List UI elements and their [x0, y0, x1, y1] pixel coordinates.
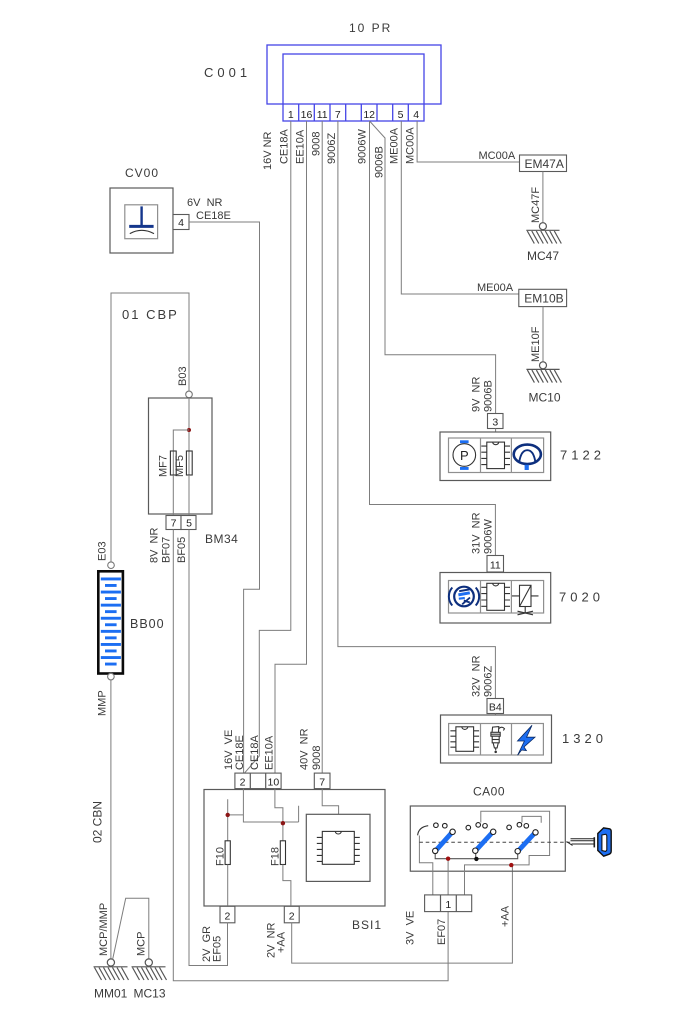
7020 IC icon: [487, 583, 505, 610]
wire E03 / B03 (battery to BM34): [111, 293, 189, 562]
svg-text:2: 2: [240, 777, 246, 789]
svg-text:31V NR: 31V NR: [471, 512, 483, 554]
CA00 dashed key line: [419, 841, 570, 843]
svg-text:EE10A: EE10A: [264, 735, 276, 770]
component BSI1 box: [204, 790, 385, 907]
BSI1 inner module box: [306, 814, 370, 881]
svg-text:02 CBN: 02 CBN: [91, 801, 105, 843]
svg-text:MMP: MMP: [97, 690, 109, 716]
svg-text:5: 5: [398, 109, 404, 121]
svg-text:EF05: EF05: [211, 936, 223, 962]
svg-text:16V NR: 16V NR: [262, 131, 274, 170]
wire 9008 (C001 pin 11 to BSI1 pin 7): [321, 121, 323, 773]
svg-text:MC00A: MC00A: [479, 150, 516, 162]
wire MMP to ground: [110, 680, 112, 959]
wire BF07 / EF07 (BM34 pin7 to CA00 pin1): [173, 530, 448, 981]
svg-text:8V NR: 8V NR: [148, 527, 160, 563]
splice EM10B box: [519, 289, 567, 306]
wire branch to MF7: [173, 430, 189, 451]
svg-text:9006W: 9006W: [483, 519, 495, 554]
CV00 pin 4 box: [173, 215, 189, 230]
wire 9006Z (C001 pin 7 to 1320 pin B4): [338, 121, 496, 699]
svg-text:BM34: BM34: [205, 532, 238, 546]
svg-text:B4: B4: [489, 702, 502, 714]
svg-text:EE10A: EE10A: [294, 129, 306, 164]
7122 pin 3 box: [488, 414, 504, 429]
CA00 switch 1 lever: [436, 833, 451, 850]
component 7020 box: [440, 573, 551, 624]
svg-text:40V NR: 40V NR: [299, 728, 311, 770]
svg-text:EM10B: EM10B: [524, 292, 563, 306]
svg-text:CE18E: CE18E: [196, 210, 231, 222]
svg-text:+AA: +AA: [500, 905, 512, 927]
svg-text:7122: 7122: [560, 448, 605, 463]
svg-text:2: 2: [224, 910, 230, 922]
svg-text:4: 4: [178, 217, 184, 229]
svg-text:+AA: +AA: [275, 931, 287, 953]
wire ground link MM01 to MC13: [113, 898, 149, 959]
svg-text:1: 1: [288, 109, 294, 121]
svg-text:MF5: MF5: [174, 455, 186, 477]
wire MC00A (C001 pin 4 to EM47A): [417, 121, 519, 162]
1320 injector icon: [491, 727, 505, 753]
CA00 contact circles: [434, 823, 439, 828]
CA00 switch 3 lever: [519, 834, 535, 851]
ground MC10: [540, 362, 547, 369]
wire EE10A (C001 pin 16 to BSI1 pin 10): [275, 121, 307, 773]
CV00 antenna icon box: [125, 205, 158, 239]
node E03 battery top: [108, 562, 115, 569]
svg-text:6V NR: 6V NR: [187, 197, 223, 209]
svg-text:1320: 1320: [562, 731, 607, 746]
CA00 internal gray loop: [465, 811, 550, 895]
wire ME10F: [542, 307, 544, 362]
wire CE18A (C001 pin 1 to BSI1 pin 2): [245, 121, 291, 773]
svg-text:B03: B03: [177, 366, 189, 386]
svg-text:7020: 7020: [559, 590, 604, 605]
svg-text:MF7: MF7: [158, 455, 170, 477]
ground MC13: [145, 959, 152, 966]
svg-text:BSI1: BSI1: [352, 918, 382, 932]
key icon: [567, 828, 612, 856]
svg-text:7: 7: [335, 109, 341, 121]
7122 gauge icon: [514, 445, 541, 470]
fuse F10: [225, 841, 230, 865]
svg-text:E03: E03: [97, 541, 109, 561]
1320 lightning icon: [518, 725, 536, 755]
BM34 pin 7 box: [166, 516, 181, 530]
svg-text:CV00: CV00: [125, 166, 159, 180]
svg-text:9006Z: 9006Z: [483, 666, 495, 697]
BSI1 internal wires from pin 2: [228, 789, 299, 841]
svg-text:MM01: MM01: [94, 987, 128, 1001]
CA00 bottom bus wire: [435, 851, 518, 859]
BM34 pin 5 box: [181, 516, 196, 530]
svg-text:MC10: MC10: [529, 391, 561, 405]
CA00 left hook contact: [418, 826, 429, 836]
svg-text:9008: 9008: [311, 132, 323, 156]
svg-text:3: 3: [492, 417, 498, 429]
svg-text:F18: F18: [270, 847, 282, 866]
svg-text:ME00A: ME00A: [477, 282, 514, 294]
svg-text:MC00A: MC00A: [404, 127, 416, 164]
CA00 switch 2 lever: [477, 833, 493, 850]
svg-text:CE18E: CE18E: [234, 735, 246, 770]
svg-text:MC47: MC47: [527, 249, 559, 263]
7020 pin 11 box: [487, 556, 504, 573]
BSI1 internal wire from pin 7: [322, 789, 338, 815]
svg-text:9006B: 9006B: [374, 146, 386, 178]
svg-text:1: 1: [445, 899, 451, 911]
svg-text:5: 5: [186, 518, 192, 530]
svg-text:CE18A: CE18A: [279, 128, 291, 164]
1320 IC icon: [456, 727, 474, 752]
svg-text:MC47F: MC47F: [530, 187, 542, 223]
svg-text:12: 12: [363, 109, 375, 121]
svg-text:BF05: BF05: [176, 537, 188, 563]
junction dots CA00: [446, 857, 450, 861]
svg-text:11: 11: [317, 109, 328, 121]
svg-text:01 CBP: 01 CBP: [122, 307, 179, 322]
7122 fuel pump icon: [453, 440, 476, 470]
CV00 antenna icon: [140, 206, 142, 226]
svg-text:MCP/MMP: MCP/MMP: [98, 903, 110, 956]
BSI1 top pin box 7: [314, 773, 330, 789]
ground MC47: [539, 223, 546, 230]
BSI1 top pin boxes 2 / 10: [235, 773, 281, 789]
junction dot F10: [226, 813, 230, 817]
svg-text:EM47A: EM47A: [525, 157, 564, 171]
wire MC47F: [542, 172, 544, 223]
svg-text:MC13: MC13: [134, 987, 166, 1001]
component BM34 box: [149, 398, 213, 514]
junction dot F18: [281, 821, 285, 825]
svg-text:CA00: CA00: [473, 785, 505, 799]
7020 ABS icon: [449, 587, 479, 607]
wire 9006W (C001 pin 12 to 7020 pin 11): [370, 121, 496, 556]
1320 pin B4 box: [487, 699, 504, 714]
svg-text:2: 2: [289, 910, 295, 922]
svg-text:P: P: [460, 448, 469, 463]
svg-text:ME00A: ME00A: [389, 127, 401, 164]
svg-text:7: 7: [171, 518, 177, 530]
svg-text:4: 4: [413, 109, 419, 121]
CA00 switch3 hook wire: [522, 816, 541, 822]
svg-text:F10: F10: [214, 847, 226, 866]
svg-text:3V VE: 3V VE: [405, 911, 417, 945]
wires MF7/MF5 to pins: [173, 475, 189, 516]
connector C001 pin row dividers: [299, 104, 409, 121]
fuse MF7: [170, 451, 176, 477]
svg-text:16: 16: [301, 109, 313, 121]
svg-text:11: 11: [490, 560, 501, 572]
svg-text:C001: C001: [204, 65, 251, 80]
BSI1 IC icon: [322, 831, 354, 864]
svg-text:9006Z: 9006Z: [326, 133, 338, 164]
node MMP battery bottom: [108, 673, 115, 680]
wire BF05 / EF05 (BM34 pin5 to BSI1 pin2): [189, 530, 228, 966]
connector C001 outer shell: [267, 45, 441, 104]
splice EM47A box: [520, 155, 567, 172]
7122 IC icon: [487, 442, 505, 469]
svg-text:ME10F: ME10F: [530, 326, 542, 362]
CA00 bottom pin box: [425, 895, 472, 912]
svg-text:9006W: 9006W: [357, 129, 369, 164]
svg-text:BF07: BF07: [161, 537, 173, 563]
component 1320 box: [441, 715, 552, 763]
BSI1 internal wires from pin 10: [275, 789, 283, 841]
component CV00 box: [110, 188, 173, 253]
svg-text:BB00: BB00: [130, 617, 165, 631]
wire +AA (BSI1 pin2 to CA00): [292, 865, 513, 963]
svg-text:32V NR: 32V NR: [471, 655, 483, 697]
svg-text:9008: 9008: [311, 746, 323, 770]
wire 9006B (C001 pin 12 to 7122 pin 3): [370, 122, 496, 414]
svg-text:MCP: MCP: [136, 932, 148, 956]
svg-text:CE18A: CE18A: [249, 734, 261, 770]
CA00 switch2 stub: [475, 851, 477, 859]
component CA00 box: [410, 806, 565, 871]
fuse F18: [280, 841, 285, 865]
svg-text:10: 10: [268, 777, 280, 789]
wire ME00A (C001 pin 5 to EM10B): [401, 121, 519, 294]
connector C001 inner shell: [283, 54, 424, 121]
CA00 left contact wire: [419, 836, 432, 895]
svg-text:EF07: EF07: [436, 919, 448, 945]
BSI1 bottom pin boxes: [220, 906, 235, 923]
svg-text:9V NR: 9V NR: [471, 376, 483, 412]
fuse MF5: [186, 451, 192, 477]
wire CE18E (CV00 pin 4 to BSI1 pin 2): [189, 222, 260, 773]
wire B03 inside BM34: [188, 398, 190, 451]
battery BB00: [98, 571, 123, 673]
component 7122 box: [440, 432, 551, 481]
wire pinB4 to 1320: [494, 714, 496, 716]
ground MM01: [107, 959, 114, 966]
junction dot in BM34: [187, 428, 191, 432]
node B03 at BM34: [186, 391, 193, 398]
7020 solenoid icon: [512, 585, 539, 615]
svg-text:7: 7: [319, 777, 325, 789]
wire pin3 to 7122: [495, 429, 497, 433]
svg-text:10 PR: 10 PR: [349, 21, 392, 35]
wire EF07 drop: [447, 859, 449, 895]
svg-text:9006B: 9006B: [483, 380, 495, 412]
